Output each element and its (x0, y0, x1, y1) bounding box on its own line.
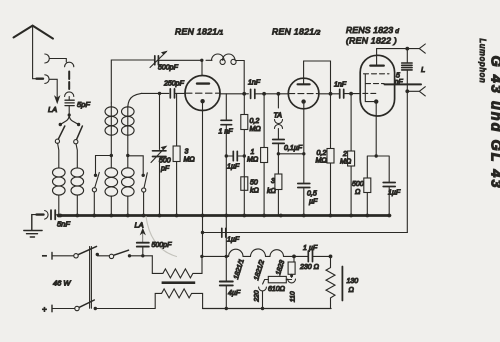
node lower fork (405, 89, 409, 93)
svg-text:46 W: 46 W (53, 279, 71, 288)
switch S6 contact (75, 306, 79, 310)
wire S5 to junction (130, 255, 153, 257)
switch S3 blade (144, 173, 147, 188)
heater hump 1821/2 (251, 249, 266, 256)
wire rail 232 (203, 216, 408, 257)
svg-text:pF: pF (160, 166, 170, 173)
main bus (60, 214, 390, 217)
fork terminal top (419, 44, 425, 53)
svg-text:MΩ: MΩ (316, 158, 328, 165)
wire grid line tube1 (142, 92, 169, 94)
heater hump 1821/1 (229, 249, 243, 256)
svg-text:G 43 und GL 43: G 43 und GL 43 (488, 55, 500, 189)
capacitor 500pF LA (137, 243, 149, 247)
svg-text:230 Ω: 230 Ω (299, 264, 320, 271)
svg-text:REN 1821/1: REN 1821/1 (175, 27, 224, 37)
capacitor 1nF coupling1 (251, 89, 255, 98)
svg-text:2: 2 (342, 151, 347, 158)
svg-text:500pF: 500pF (152, 242, 173, 249)
svg-text:3: 3 (271, 178, 275, 185)
tube V3 internal tie (365, 74, 374, 102)
heater hump 1823 (270, 250, 284, 257)
arrow LA up (140, 229, 145, 243)
dial cord faint arc (146, 217, 177, 257)
tube V1 REN1821/1 envelope (185, 76, 220, 111)
switch S1b blade (77, 126, 83, 139)
capacitor 1uF link (233, 151, 237, 160)
capacitor 5nF (51, 210, 55, 219)
svg-text:500: 500 (159, 158, 171, 165)
svg-text:1nF: 1nF (334, 82, 347, 89)
coil column lower L6 (122, 168, 135, 177)
node TA column (277, 92, 281, 96)
wire socket to 5pF (68, 97, 70, 100)
plug dash (37, 213, 44, 215)
rail 232 capacitor 1uF (222, 228, 226, 237)
svg-text:RENS 1823 d: RENS 1823 d (346, 25, 399, 35)
tube V3 cathode lead (375, 102, 377, 156)
wire 250pF to tube1 (175, 92, 186, 94)
wire right rail down (203, 91, 408, 232)
wire varcap to tube1 grid node (158, 59, 201, 61)
coil column upper L4 (128, 93, 142, 168)
svg-text:0,1µF: 0,1µF (284, 145, 303, 152)
switch S1a blade (58, 126, 64, 139)
node tube1 top (200, 59, 203, 62)
node 2M column (349, 92, 353, 96)
wire choke to anode corner (236, 61, 244, 93)
svg-text:220: 220 (254, 290, 261, 303)
coil L2 (71, 168, 84, 177)
svg-text:(REN 1822 ): (REN 1822 ) (346, 36, 397, 46)
node cathode V3 (375, 154, 378, 157)
svg-text:1823: 1823 (275, 259, 286, 276)
svg-text:5pF: 5pF (77, 100, 90, 109)
svg-text:Ω: Ω (355, 189, 361, 196)
node top rail (405, 47, 409, 51)
svg-text:5nF: 5nF (57, 220, 70, 229)
tube V2 grid dashed (289, 93, 319, 95)
wire anode tube1 (221, 93, 249, 95)
terminal minus (51, 253, 53, 260)
wire TA to cap (277, 129, 279, 139)
capacitor 0,5uF (298, 184, 310, 188)
switch S4 contact (74, 254, 78, 258)
svg-text:1µF: 1µF (388, 190, 401, 197)
svg-text:LA: LA (135, 221, 144, 230)
svg-text:1: 1 (251, 149, 255, 156)
tube V1 anode dashed line (186, 92, 221, 94)
wire S4 to S5 (97, 255, 109, 257)
branch 1nF column (225, 94, 227, 216)
node anode-choke (242, 92, 246, 96)
wire plus rail (95, 308, 155, 310)
coil column lower L5 (105, 168, 118, 177)
socket A1 (45, 54, 50, 63)
resistor 0,2M column (243, 94, 245, 216)
switch S2 blade (95, 173, 100, 188)
bus junction dots (57, 214, 391, 218)
wire L1 to bus (58, 195, 60, 216)
socket opening up (65, 92, 74, 97)
ballast hatched bar (162, 281, 196, 284)
wire S2 to bus (93, 192, 95, 216)
svg-text:Lumophon: Lumophon (478, 38, 487, 83)
svg-text:MΩ: MΩ (184, 157, 196, 164)
svg-text:µF: µF (309, 199, 318, 206)
mech link switches (90, 247, 92, 309)
wire coupling to tube2 (255, 93, 289, 95)
svg-text:4µF: 4µF (228, 290, 241, 297)
antenna socket A2 (45, 75, 49, 84)
wire ground to 5nF (32, 214, 36, 216)
node varcap column (158, 92, 161, 95)
antenna plug (37, 77, 44, 79)
resistor 130 bar (341, 267, 343, 301)
svg-text:500pF: 500pF (158, 65, 179, 72)
node heater 230 (292, 255, 296, 259)
tube V1 grid cap lead (201, 60, 203, 75)
wire 5nF column (406, 49, 408, 92)
heater line (202, 255, 229, 257)
svg-text:1821/1: 1821/1 (233, 258, 246, 280)
wire L2 to bus (76, 195, 78, 216)
resistor 130 zigzag (326, 256, 335, 308)
svg-text:+: + (42, 305, 47, 314)
resistor ballast 2 zigzag (155, 289, 202, 308)
wire 5nF to bus (55, 214, 60, 216)
capacitor 250pF (170, 89, 174, 98)
screen output line (385, 83, 422, 85)
jack TA (275, 120, 283, 124)
svg-text:610Ω: 610Ω (268, 286, 286, 293)
wire S1b to coil (76, 144, 77, 168)
socket arc (45, 211, 48, 220)
svg-text:1821/2: 1821/2 (253, 259, 266, 281)
svg-text:1µF: 1µF (227, 164, 240, 171)
svg-text:−: − (42, 252, 47, 261)
tube V2 cathode (301, 99, 305, 103)
svg-text:250pF: 250pF (163, 81, 185, 88)
tube V2 REN1821/2 envelope (288, 78, 319, 109)
wire 5pF to node (68, 106, 70, 115)
switch S6 blade (79, 300, 94, 307)
node ballast-heater (200, 255, 203, 258)
tube V2 top electrode bar (298, 83, 310, 85)
resistor 500 (364, 178, 371, 193)
wire S1a to coil (58, 143, 59, 168)
tube V3 anode lead (376, 49, 378, 66)
wire socket A1 to column (50, 59, 67, 63)
wire cathode RC (367, 156, 389, 216)
bottom rail (203, 308, 331, 310)
capacitor 1uF cathode (383, 183, 395, 187)
tube V3 grid3 dashed (363, 92, 377, 94)
resistor 50k (241, 177, 248, 191)
resistor 3k (277, 154, 279, 216)
tube V3 RENS1823d envelope (360, 55, 394, 116)
tube V3 grid1 dashed (364, 73, 390, 75)
node anode V2 (329, 92, 333, 96)
svg-text:kΩ: kΩ (267, 188, 277, 195)
tube V3 anode bar (370, 64, 384, 66)
node coil tap right (126, 154, 129, 157)
wire varcap mid column (159, 93, 161, 215)
switch S5 blade (114, 250, 129, 255)
resistor 3M column (176, 93, 178, 215)
node split (60, 115, 78, 125)
svg-text:MΩ: MΩ (247, 157, 259, 164)
wire tap to switch S3 (128, 156, 143, 174)
resistor 2M column (350, 94, 352, 216)
capacitor 5pF (65, 100, 74, 105)
tube V3 cathode (374, 99, 378, 103)
wire tap to switch S2 (96, 156, 112, 174)
resistor 1M column (263, 94, 265, 216)
capacitor 4uF column (225, 216, 227, 309)
variable capacitor 500pF top (155, 56, 159, 65)
wire anode V2 right (319, 93, 340, 95)
svg-text:50: 50 (250, 180, 258, 187)
wire to LA arrow (50, 79, 58, 97)
tube V1 top electrode bar (197, 82, 209, 84)
switch S5 contact (109, 254, 113, 258)
wire V2 anode loop (304, 61, 331, 216)
node heater 130 (329, 255, 333, 259)
svg-text:kΩ: kΩ (250, 188, 260, 195)
svg-text:Ω: Ω (349, 287, 355, 294)
capacitor 5nF striped (402, 63, 412, 70)
node coil tap left (110, 154, 113, 157)
svg-text:130: 130 (347, 278, 359, 285)
tube V1 cathode lead (202, 101, 204, 216)
arrow LA down (55, 96, 60, 103)
svg-text:3: 3 (185, 149, 189, 156)
wire cap to node (278, 144, 303, 154)
tube V2 cathode lead (303, 104, 305, 216)
socket opening down (65, 62, 74, 67)
socket 220 (259, 287, 267, 291)
socket 110 (288, 279, 296, 283)
svg-text:MΩ: MΩ (340, 159, 352, 166)
resistor 0,2M (2) (327, 149, 334, 164)
wire antenna stem (33, 26, 37, 79)
tube V3 grid2 dashed (366, 83, 385, 85)
coil L1 (53, 168, 66, 177)
svg-text:TA: TA (274, 113, 283, 120)
svg-text:REN 1821/2: REN 1821/2 (272, 27, 321, 37)
wire TA column (277, 94, 279, 108)
svg-text:1nF: 1nF (248, 80, 261, 87)
resistor 610 (268, 276, 286, 282)
svg-text:0,2: 0,2 (250, 118, 260, 125)
switch S4 blade (78, 246, 96, 254)
coil column upper L3 (110, 103, 112, 168)
ground (24, 215, 42, 237)
svg-text:0,2: 0,2 (317, 150, 327, 157)
wire coupling2 to tube3 (344, 93, 361, 95)
svg-text:1µF: 1µF (227, 237, 240, 244)
capacitor 1uF heater (308, 251, 312, 262)
capacitor 1nF vert (221, 120, 232, 124)
coil RF choke top (206, 59, 212, 61)
capacitor 1nF coupling2 (340, 89, 344, 98)
fork terminal lower (407, 87, 425, 96)
svg-text:110: 110 (289, 291, 296, 302)
node 500pF-LA (141, 254, 144, 257)
top rail anode V3 (377, 48, 420, 50)
capacitor 0,1uF (273, 140, 285, 144)
svg-text:500: 500 (352, 181, 364, 188)
tube V1 cathode (200, 99, 204, 103)
resistor ballast 1 zigzag (152, 256, 202, 278)
wire top rail from coil column (111, 60, 154, 103)
svg-text:L: L (421, 65, 425, 74)
svg-text:MΩ: MΩ (250, 126, 262, 133)
node 1M column (262, 92, 266, 96)
variable capacitor 500pF mid (153, 151, 167, 157)
svg-text:1 nF: 1 nF (219, 129, 234, 136)
wire S3 to bus (143, 192, 145, 215)
svg-text:0,5: 0,5 (307, 191, 317, 198)
svg-text:1 µF: 1 µF (303, 245, 318, 252)
plug dashes (68, 72, 70, 90)
terminal plus (51, 305, 53, 312)
resistor 230 branch (293, 256, 295, 262)
antenna (14, 26, 54, 39)
svg-text:LA: LA (48, 105, 57, 114)
